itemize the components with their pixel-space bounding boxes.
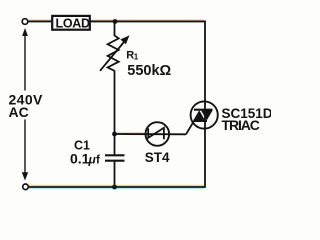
wire junction down to R1: [114, 22, 116, 37]
label 0.1uf: [70, 151, 100, 167]
wire capacitor to bottom rail: [114, 161, 116, 187]
svg-text:f: f: [96, 155, 100, 167]
source arrow up (240V AC dimension): [22, 28, 28, 91]
svg-text:TRIAC: TRIAC: [222, 117, 260, 133]
svg-text:0.1: 0.1: [70, 151, 90, 167]
junction dot top node: [113, 19, 118, 24]
wire node to ST4: [115, 133, 187, 135]
terminal top-left: [22, 19, 28, 25]
triac U1 SC151D: [191, 101, 218, 128]
capacitor C1 plates: [105, 155, 125, 160]
junction dot gate node: [112, 132, 117, 137]
wire top corner down through triac to bottom rail: [204, 21, 206, 188]
wire ST4 to triac gate: [186, 121, 194, 134]
junction dot bottom node: [112, 185, 117, 190]
diac ST4: [146, 122, 170, 146]
source arrow down: [22, 120, 28, 181]
svg-text:ST4: ST4: [145, 150, 170, 165]
resistor R1 (variable, zigzag with arrow): [100, 35, 130, 71]
terminal bottom-left: [23, 184, 29, 190]
svg-text:AC: AC: [9, 104, 29, 120]
label R1: [126, 49, 139, 61]
svg-text:LOAD: LOAD: [56, 16, 90, 30]
wire terminal to LOAD: [28, 21, 51, 23]
bottom rail wire: [29, 186, 205, 188]
wire LOAD to right corner: [91, 21, 206, 23]
svg-text:550kΩ: 550kΩ: [127, 63, 171, 79]
wire R1 to capacitor: [114, 71, 116, 156]
svg-text:1: 1: [134, 53, 139, 62]
load box LOAD: [52, 16, 90, 30]
